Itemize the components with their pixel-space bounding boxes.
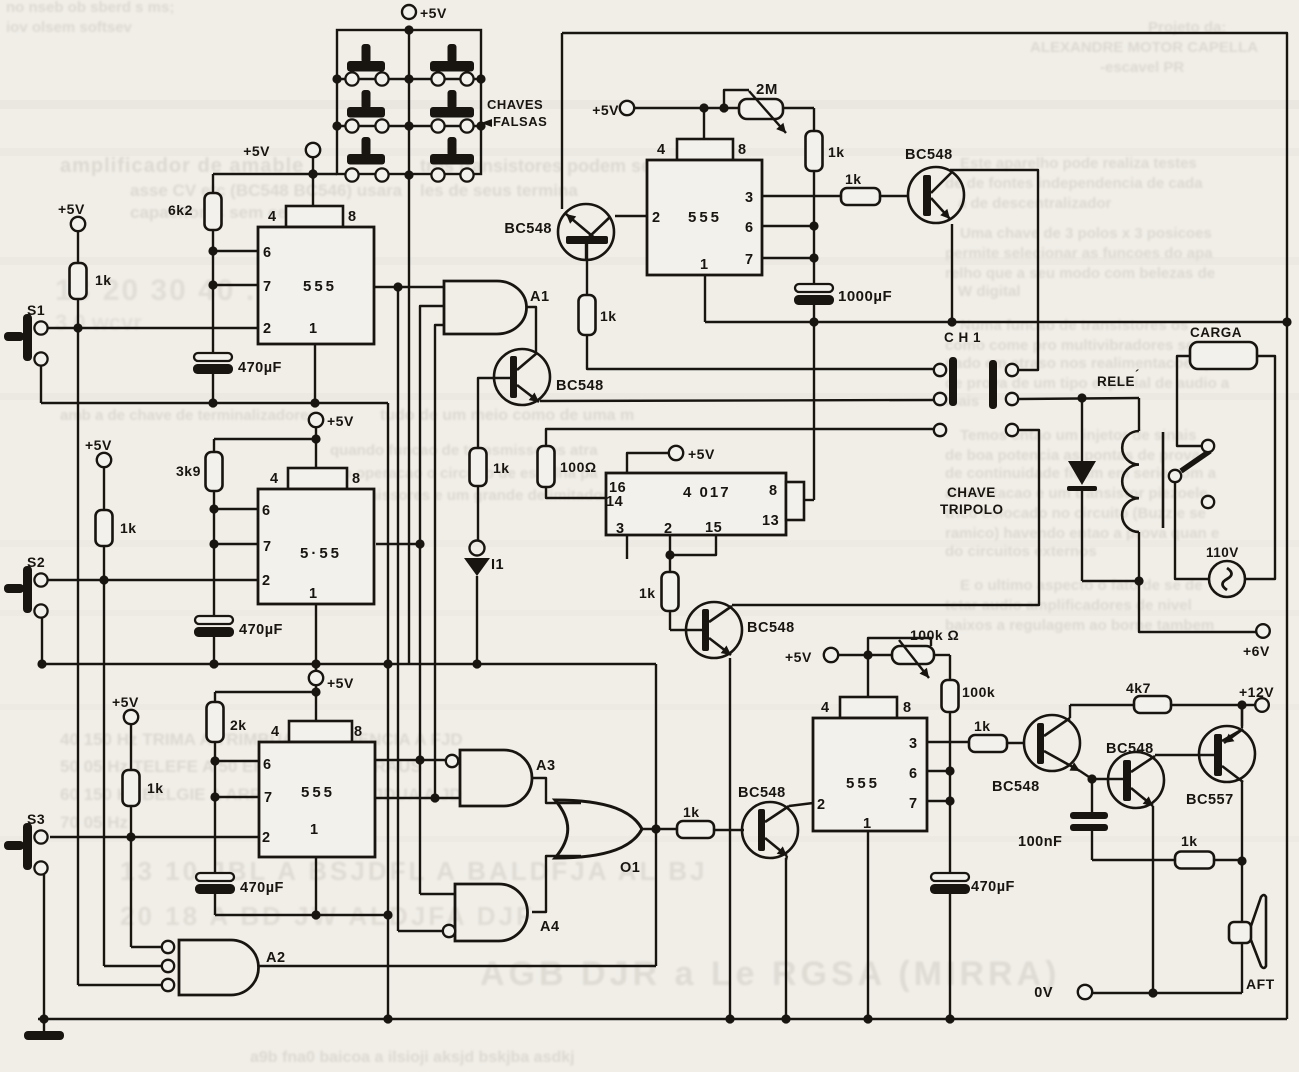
svg-text:1: 1 — [863, 816, 872, 832]
svg-text:no nseb ob sberd s ms;: no nseb ob sberd s ms; — [6, 0, 174, 16]
svg-text:AFT: AFT — [1246, 976, 1275, 992]
svg-text:8: 8 — [903, 700, 912, 716]
svg-text:1k: 1k — [683, 804, 700, 820]
svg-text:FALSAS: FALSAS — [493, 114, 547, 129]
svg-text:CHAVE: CHAVE — [947, 485, 996, 500]
svg-text:nado em atraso nos realimentac: nado em atraso nos realimentacoes po — [945, 355, 1223, 372]
svg-text:1k: 1k — [120, 520, 137, 536]
svg-text:4: 4 — [657, 142, 666, 158]
svg-text:7: 7 — [909, 796, 918, 812]
svg-text:BC548: BC548 — [556, 378, 604, 394]
svg-text:2: 2 — [817, 797, 826, 813]
svg-text:C H 1: C H 1 — [944, 330, 981, 345]
svg-text:A3: A3 — [536, 758, 556, 774]
svg-text:-escavel PR: -escavel PR — [1100, 59, 1184, 76]
svg-text:6: 6 — [909, 766, 918, 782]
svg-text:470µF: 470µF — [240, 880, 284, 896]
svg-text:4: 4 — [268, 209, 277, 225]
svg-text:100k: 100k — [962, 684, 995, 700]
svg-text:asse CV etc (BC548 BC546) usa: asse CV etc (BC548 BC546) usara — [130, 181, 403, 200]
svg-text:BC548: BC548 — [992, 779, 1040, 795]
svg-text:Uma chave de 3 polos x 3 posic: Uma chave de 3 polos x 3 posicoes — [960, 225, 1212, 242]
svg-text:1: 1 — [309, 321, 318, 337]
svg-text:555: 555 — [688, 209, 722, 226]
svg-text:S3: S3 — [27, 811, 45, 827]
svg-text:2: 2 — [664, 521, 673, 537]
svg-text:1: 1 — [700, 257, 709, 273]
svg-text:6: 6 — [263, 757, 272, 773]
svg-text:2: 2 — [652, 210, 661, 226]
svg-text:1k: 1k — [147, 780, 164, 796]
svg-text:Temos entao um injetor de sina: Temos entao um injetor de sinais — [960, 427, 1196, 444]
svg-text:BC548: BC548 — [738, 785, 786, 801]
svg-text:8: 8 — [348, 209, 357, 225]
svg-text:I1: I1 — [491, 557, 504, 573]
svg-text:+5V: +5V — [243, 143, 270, 159]
svg-text:555: 555 — [303, 278, 337, 295]
svg-text:8: 8 — [354, 724, 363, 740]
svg-text:7: 7 — [263, 539, 272, 555]
svg-text:W digital: W digital — [958, 283, 1021, 300]
svg-text:100nF: 100nF — [1018, 834, 1062, 850]
svg-text:6: 6 — [263, 245, 272, 261]
svg-text:+5V: +5V — [785, 649, 812, 665]
svg-text:a9b fna0 baicoa a ilsioji: a9b fna0 baicoa a ilsioji aksjd bskjba a… — [250, 1049, 575, 1066]
svg-text:6k2: 6k2 — [168, 202, 193, 218]
svg-text:1k: 1k — [1181, 833, 1198, 849]
svg-text:CHAVES: CHAVES — [487, 97, 543, 112]
svg-text:TRIPOLO: TRIPOLO — [940, 502, 1004, 517]
svg-text:6: 6 — [262, 503, 271, 519]
svg-text:4 017: 4 017 — [683, 484, 731, 501]
svg-text:´: ´ — [1135, 367, 1140, 382]
svg-text:BC557: BC557 — [1186, 792, 1234, 808]
svg-text:15: 15 — [705, 520, 722, 536]
svg-text:A1: A1 — [530, 289, 550, 305]
svg-text:ALEXANDRE MOTOR CAPELLA: ALEXANDRE MOTOR CAPELLA — [1030, 39, 1258, 56]
svg-text:4: 4 — [270, 471, 279, 487]
svg-text:100k Ω: 100k Ω — [910, 627, 959, 643]
svg-text:470µF: 470µF — [971, 879, 1015, 895]
svg-text:7: 7 — [263, 279, 272, 295]
svg-text:BC548: BC548 — [1106, 741, 1154, 757]
svg-text:3: 3 — [745, 190, 754, 206]
svg-text:100Ω: 100Ω — [560, 459, 597, 475]
svg-text:de de fontes independencia de: de de fontes independencia de cada — [945, 175, 1203, 192]
svg-text:+5V: +5V — [327, 413, 354, 429]
svg-text:1k: 1k — [95, 272, 112, 288]
svg-text:4k7: 4k7 — [1126, 680, 1151, 696]
svg-text:7: 7 — [745, 252, 754, 268]
svg-text:1k: 1k — [493, 460, 510, 476]
svg-text:BC548: BC548 — [905, 147, 953, 163]
svg-text:7: 7 — [264, 790, 273, 806]
svg-text:1: 1 — [310, 822, 319, 838]
svg-text:3: 3 — [909, 736, 918, 752]
svg-text:AGB DJR a Le RGSA (MIRRA): AGB DJR a Le RGSA (MIRRA) — [480, 955, 1060, 993]
svg-text:470µF: 470µF — [239, 622, 283, 638]
svg-text:3 0 wcvr: 3 0 wcvr — [55, 310, 142, 335]
svg-text:8: 8 — [352, 471, 361, 487]
svg-text:3: 3 — [616, 521, 625, 537]
svg-text:1k: 1k — [828, 144, 845, 160]
svg-text:555: 555 — [846, 775, 880, 792]
svg-text:8: 8 — [769, 483, 778, 499]
svg-text:a de descentralizador: a de descentralizador — [958, 195, 1112, 212]
svg-text:1k: 1k — [974, 718, 991, 734]
svg-text:1k: 1k — [845, 171, 862, 187]
svg-text:70 05 Hz: 70 05 Hz — [60, 813, 128, 832]
svg-text:amb a de chave de terminalizad: amb a de chave de terminalizadores — [60, 407, 317, 424]
svg-text:+6V: +6V — [1243, 643, 1270, 659]
svg-text:6: 6 — [745, 220, 754, 236]
svg-text:4: 4 — [271, 724, 280, 740]
svg-text:+5V: +5V — [592, 102, 619, 118]
svg-text:A4: A4 — [540, 919, 560, 935]
svg-text:1: 1 — [309, 586, 318, 602]
svg-text:tudo de um meio como de uma m: tudo de um meio como de uma m — [380, 407, 634, 424]
svg-text:+5V: +5V — [688, 446, 715, 462]
svg-text:Numa funcao de transistores o: Numa funcao de transistores os — [960, 317, 1188, 334]
svg-text:2M: 2M — [756, 81, 778, 98]
svg-text:BC548: BC548 — [747, 620, 795, 636]
svg-text:relho que a seu modo com belez: relho que a seu modo com belezas de — [945, 265, 1215, 282]
svg-text:1000µF: 1000µF — [838, 288, 892, 305]
svg-text:3k9: 3k9 — [176, 463, 201, 479]
svg-text:de prova de um tipo especial d: de prova de um tipo especial de audio a — [945, 375, 1230, 392]
svg-text:2: 2 — [263, 321, 272, 337]
svg-text:+12V: +12V — [1239, 684, 1274, 700]
svg-text:RELE: RELE — [1097, 374, 1135, 389]
svg-text:8: 8 — [738, 142, 747, 158]
svg-text:quando funcao de transmissore: quando funcao de transmissores atra — [330, 442, 598, 459]
svg-text:+5V: +5V — [58, 201, 85, 217]
svg-text:+5V: +5V — [112, 694, 139, 710]
svg-text:1k: 1k — [639, 585, 656, 601]
svg-text:1k: 1k — [600, 308, 617, 324]
svg-text:S1: S1 — [27, 302, 45, 318]
svg-text:iov olsem softsev: iov olsem softsev — [6, 19, 133, 36]
svg-text:CARGA: CARGA — [1190, 325, 1242, 340]
svg-text:2: 2 — [262, 830, 271, 846]
svg-text:+5V: +5V — [85, 437, 112, 453]
svg-text:+5V: +5V — [327, 675, 354, 691]
svg-text:555: 555 — [301, 784, 335, 801]
svg-text:O1: O1 — [620, 860, 640, 876]
svg-text:2: 2 — [262, 573, 271, 589]
svg-text:5·55: 5·55 — [300, 545, 342, 562]
svg-text:BC548: BC548 — [504, 221, 552, 237]
svg-text:14: 14 — [606, 494, 623, 510]
svg-text:4: 4 — [821, 700, 830, 716]
svg-text:em operacao o circuito de esc: em operacao o circuito de escolha pa — [330, 465, 598, 482]
svg-text:0V: 0V — [1034, 985, 1053, 1001]
svg-text:S2: S2 — [27, 554, 45, 570]
svg-text:A2: A2 — [266, 950, 286, 966]
svg-text:470µF: 470µF — [238, 360, 282, 376]
svg-text:2k: 2k — [230, 717, 247, 733]
svg-text:110V: 110V — [1206, 545, 1239, 560]
svg-text:les de seus termina: les de seus termina — [420, 181, 578, 200]
svg-text:+5V: +5V — [420, 5, 447, 21]
svg-text:13: 13 — [762, 513, 779, 529]
svg-text:como come pro multivibradores: como come pro multivibradores se ga — [945, 337, 1217, 354]
